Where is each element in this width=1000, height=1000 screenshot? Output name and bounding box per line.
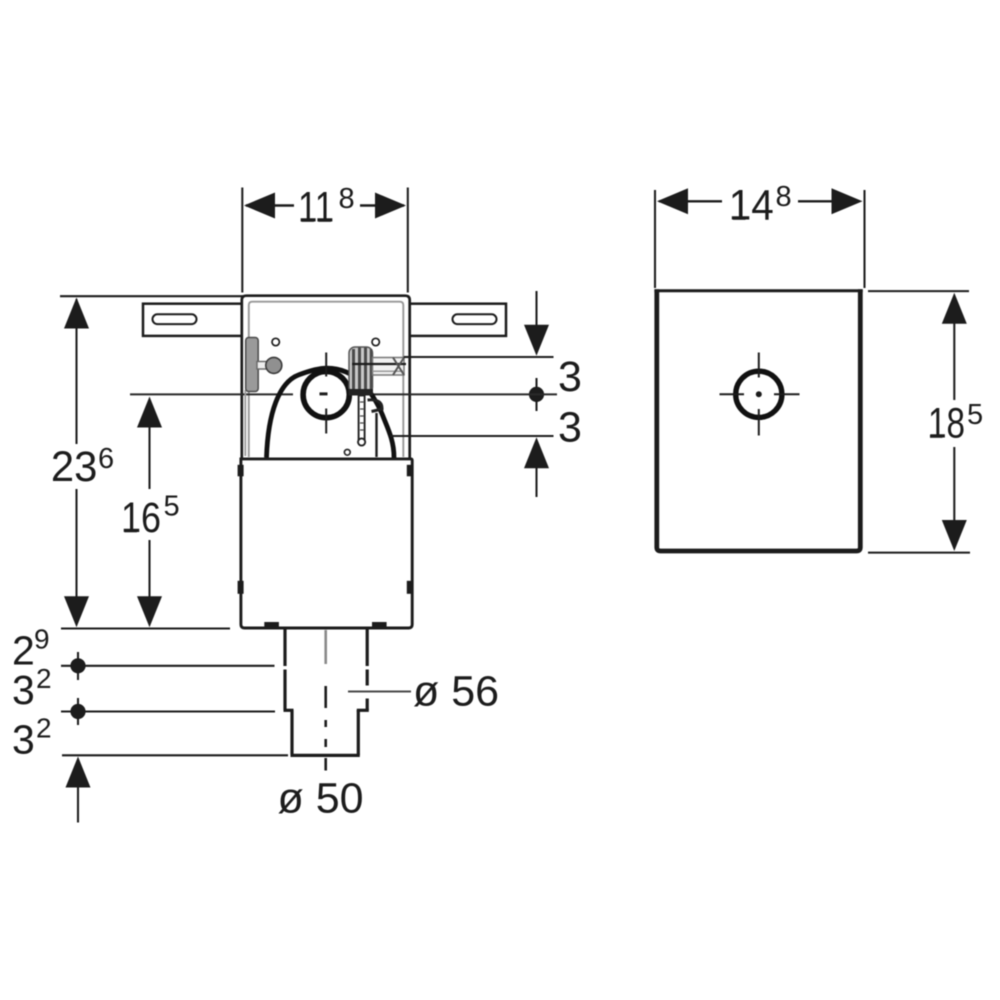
svg-text:2: 2 (36, 713, 52, 744)
svg-text:14: 14 (729, 182, 774, 230)
svg-text:6: 6 (98, 443, 114, 475)
ref line stubs inside box (404, 356, 412, 358)
flush bend dome (267, 368, 395, 457)
svg-text:ø 50: ø 50 (278, 775, 364, 823)
svg-text:ø 56: ø 56 (413, 668, 499, 716)
dim 11.8 top (242, 188, 407, 293)
svg-text:3: 3 (12, 717, 35, 763)
dim 16.5 (148, 400, 150, 600)
hook (368, 400, 383, 412)
svg-text:3: 3 (558, 404, 582, 452)
center marks circle (320, 353, 328, 434)
small hole bottom (344, 449, 350, 455)
inlet supply pipe (244, 390, 246, 456)
inner cap line (249, 302, 403, 457)
float rod (359, 396, 365, 441)
fill valve tube (349, 347, 374, 396)
access panel (656, 291, 861, 552)
svg-text:8: 8 (776, 181, 792, 213)
lower box tabs (238, 465, 244, 477)
svg-text:11: 11 (298, 184, 334, 232)
dim 23.6 (75, 299, 77, 600)
cistern upper box (242, 296, 410, 459)
pipe centerline dashes (324, 630, 327, 664)
centerline horizontal y=394.4 (130, 393, 293, 395)
guide line right of rod (375, 413, 377, 457)
ref line bottom (y 629) (61, 627, 230, 629)
svg-text:3: 3 (558, 353, 582, 401)
svg-text:9: 9 (34, 624, 50, 655)
outlet pipe d50 (291, 710, 360, 755)
svg-text:23: 23 (51, 443, 98, 491)
svg-text:3: 3 (12, 667, 35, 713)
svg-text:5: 5 (967, 399, 983, 431)
panel circle (736, 371, 782, 417)
inlet valve left (246, 338, 259, 392)
outlet pipe d56 (284, 629, 369, 710)
svg-text:8: 8 (339, 183, 355, 215)
dim 18.5 (868, 290, 969, 292)
wall bracket bar (143, 304, 506, 336)
chain dims 2.9 / 3.2 / 3.2 (61, 665, 275, 667)
svg-text:18: 18 (928, 400, 965, 448)
svg-text:5: 5 (164, 491, 180, 523)
ref line top (y 296) (60, 295, 243, 297)
flush pipe circle (303, 372, 349, 418)
connector to wall (373, 358, 405, 376)
leader d56 (348, 691, 411, 693)
svg-text:16: 16 (121, 494, 161, 542)
svg-text:2: 2 (36, 663, 52, 694)
dim 14.8 (655, 190, 865, 288)
screw holes (272, 338, 279, 345)
right chain dims 3 / 3 (403, 356, 554, 358)
lower box (241, 459, 412, 628)
